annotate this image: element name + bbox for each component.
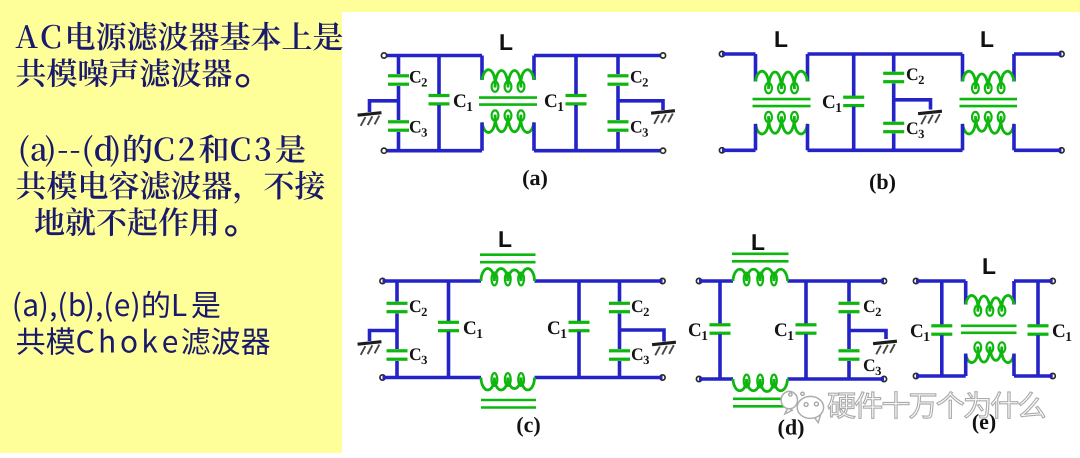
inductor winding bottom (c)	[481, 373, 535, 390]
wire d ground stem	[849, 331, 886, 340]
label C3 (c left)	[410, 348, 427, 364]
label C2 (b)	[907, 68, 924, 84]
wire c C3 right lower	[618, 361, 622, 378]
wire d branch C2C3 upper	[847, 281, 851, 302]
wire a C1-right lower	[574, 105, 578, 151]
label (c)	[517, 417, 539, 437]
ground a left	[357, 111, 382, 126]
wire a C3 right lower	[616, 132, 620, 151]
wire b bottom-right	[1014, 149, 1062, 153]
wire b xfmr2 jog TR	[1012, 54, 1016, 82]
text line6	[15, 291, 220, 322]
terminal b bottom-left	[719, 148, 724, 153]
core L (a)	[479, 98, 537, 105]
ground c left	[357, 340, 382, 355]
wire c top-left	[383, 279, 482, 283]
wire e C1-left upper	[940, 281, 944, 325]
inductor L winding top (e)	[966, 296, 1014, 316]
label C1 (a left)	[454, 94, 472, 111]
ground b	[918, 110, 943, 125]
ground d	[873, 340, 898, 355]
inductor winding bottom (d)	[733, 375, 788, 392]
wire c ground-left stem	[370, 331, 398, 342]
wire e xfmr jog TR	[1012, 281, 1016, 305]
wire a C3 left lower	[397, 132, 401, 151]
label C3 (a right)	[631, 121, 648, 137]
wire c top-right	[535, 279, 663, 283]
capacitor C3 (d)	[839, 349, 860, 361]
label C3 (a left)	[410, 121, 427, 137]
label C2 (a left)	[410, 71, 427, 87]
capacitor C1 (e left)	[931, 324, 952, 336]
text line3	[21, 134, 305, 167]
label (e)	[973, 414, 995, 434]
wire e C1-right upper	[1036, 281, 1040, 325]
label C1 (e left)	[911, 324, 929, 341]
wire b xfmr1 jog BL	[754, 124, 758, 150]
text line5 full stop	[226, 226, 235, 235]
wire e C1-left lower	[940, 335, 944, 376]
wire a xfmr top-right jog	[532, 56, 536, 81]
core L bottom (c)	[481, 400, 536, 408]
wire b C2-C3 mid	[892, 84, 896, 122]
capacitor C2 (d)	[839, 302, 860, 314]
wire d top-right	[788, 279, 885, 283]
wire c C2-C3 left mid	[395, 314, 399, 350]
label L (c)	[500, 231, 512, 247]
wire a C1-left lower	[437, 105, 441, 151]
yellow top band	[0, 0, 1080, 12]
capacitor C1 (d left)	[710, 323, 731, 335]
capacitor C1 (c left)	[438, 321, 459, 333]
wire a bottom-right	[534, 149, 663, 153]
wire b branch C2C3 upper	[892, 54, 896, 72]
capacitor C3 (a left)	[388, 120, 409, 132]
terminal a bottom-left	[381, 148, 386, 153]
wire a xfmr bottom-left jog	[480, 123, 484, 151]
wire b top-mid	[808, 52, 963, 56]
capacitor C1 (a left)	[429, 94, 450, 106]
terminal d bottom-right	[881, 376, 886, 381]
inductor L winding top (c)	[481, 269, 535, 286]
terminal e top-right	[1050, 278, 1055, 283]
core L top (d)	[732, 254, 789, 261]
terminal e bottom-left	[913, 373, 918, 378]
wire e xfmr jog BR	[1012, 354, 1016, 376]
wire b bottom-mid	[808, 149, 963, 153]
capacitor C1 (b)	[843, 96, 864, 108]
wire e xfmr jog TL	[964, 281, 968, 305]
wire b xfmr1 jog TR	[806, 54, 810, 82]
label (b)	[870, 174, 895, 194]
wire a branch C2C3-right	[616, 56, 620, 75]
capacitor C2 (a left)	[388, 74, 409, 86]
terminal d bottom-left	[696, 376, 701, 381]
label C3 (b)	[907, 122, 924, 138]
capacitor C3 (b)	[883, 122, 904, 134]
label C1 (b)	[823, 95, 841, 112]
terminal c top-right	[660, 278, 665, 283]
wire e C1-right lower	[1036, 335, 1040, 376]
inductor L2 winding top (b)	[963, 71, 1015, 93]
wire c C2-C3 right mid	[618, 314, 622, 350]
wire b ground stem	[894, 100, 931, 110]
text line5	[35, 207, 218, 236]
wire d bottom-left	[699, 377, 733, 381]
terminal d top-left	[696, 278, 701, 283]
terminal b bottom-right	[1059, 148, 1064, 153]
label L left (b)	[776, 31, 788, 47]
wire b C1 upper	[852, 54, 856, 96]
wire c bottom-right	[535, 376, 663, 380]
capacitor C2 (b)	[883, 72, 904, 84]
wire b xfmr2 jog BL	[961, 124, 965, 150]
label L (e)	[984, 258, 996, 274]
wire a xfmr top-left jog	[480, 56, 484, 81]
label C1 (a right)	[545, 94, 563, 111]
wire d C1-left lower	[718, 334, 722, 379]
terminal e top-left	[913, 278, 918, 283]
wire b xfmr2 jog TL	[961, 54, 965, 82]
wire c ground-right stem	[620, 330, 665, 342]
wire c branch C2C3-left upper	[395, 281, 399, 302]
terminal e bottom-right	[1050, 373, 1055, 378]
label (d)	[779, 419, 804, 439]
wire a top-right	[534, 54, 663, 58]
terminal b top-right	[1059, 51, 1064, 56]
label C2 (d)	[864, 300, 881, 316]
text line2 full stop	[237, 75, 248, 86]
label L (a)	[501, 34, 513, 50]
capacitor C1 (e right)	[1028, 324, 1049, 336]
inductor L1 winding bottom (b)	[756, 112, 808, 134]
terminal d top-right	[881, 278, 886, 283]
wire a C1-left upper	[437, 56, 441, 95]
label C3 (d)	[864, 359, 881, 375]
inductor L1 winding top (b)	[756, 71, 808, 93]
inductor L winding top (a)	[482, 70, 534, 92]
wire d C3 lower	[847, 361, 851, 379]
text line4	[17, 171, 325, 204]
terminal a top-right	[660, 53, 665, 58]
wire d C2-C3 mid	[847, 314, 851, 350]
wire b xfmr1 jog TL	[754, 54, 758, 82]
wire d top-left	[699, 279, 733, 283]
text line7	[17, 327, 270, 355]
wire c C3 left lower	[395, 361, 399, 378]
wire d bottom-right	[788, 377, 885, 381]
inductor L winding top (d)	[733, 269, 788, 286]
core L2 (b)	[960, 99, 1018, 106]
wire d C1-mid lower	[804, 334, 808, 379]
wire d C1-left upper	[718, 281, 722, 324]
wire c C1-right lower	[577, 332, 581, 378]
yellow left panel	[0, 0, 342, 453]
wire b xfmr1 jog BR	[806, 124, 810, 150]
label C3 (c right)	[632, 348, 649, 364]
wire a C1-right upper	[574, 56, 578, 95]
label C1 (c right)	[548, 321, 566, 338]
label C1 (e right)	[1053, 324, 1071, 341]
label C2 (a right)	[631, 71, 648, 87]
wire a ground-right stem	[618, 101, 663, 110]
terminal c top-left	[380, 278, 385, 283]
wire e xfmr jog BL	[964, 354, 968, 376]
wire c C1-left lower	[447, 332, 451, 378]
wire a branch C2C3-left	[397, 56, 401, 75]
capacitor C2 (c right)	[609, 302, 630, 314]
terminal a top-left	[381, 53, 386, 58]
wire b top-right	[1014, 52, 1062, 56]
watermark text	[828, 392, 1045, 419]
core L bottom (d)	[733, 399, 789, 407]
label C1 (c left)	[464, 321, 482, 338]
capacitor C3 (c right)	[609, 349, 630, 361]
capacitor C1 (c right)	[569, 321, 590, 333]
label (a)	[523, 170, 547, 190]
capacitor C1 (a right)	[566, 94, 587, 106]
label C1 (d mid)	[775, 323, 793, 340]
wire b C3 lower	[892, 134, 896, 151]
terminal c bottom-left	[380, 375, 385, 380]
wire e top-right	[1014, 279, 1053, 283]
inductor L winding bottom (a)	[482, 110, 534, 132]
capacitor C3 (a right)	[608, 120, 629, 132]
wire e bottom-right	[1014, 374, 1053, 378]
wire a xfmr bottom-right jog	[532, 123, 536, 151]
capacitor C1 (d mid)	[796, 323, 817, 335]
text line2	[17, 58, 232, 87]
label C2 (c left)	[410, 300, 427, 316]
core L1 (b)	[753, 99, 811, 106]
wire a bottom-left	[384, 149, 482, 153]
wire b bottom-left	[722, 149, 756, 153]
terminal c bottom-right	[660, 375, 665, 380]
wire c C1-left upper	[447, 281, 451, 321]
wire b xfmr2 jog BR	[1012, 124, 1016, 150]
wire c bottom-left	[383, 376, 482, 380]
wire b C1 lower	[852, 107, 856, 151]
ground a right	[651, 109, 676, 124]
capacitor C3 (c left)	[387, 349, 408, 361]
terminal a bottom-right	[660, 148, 665, 153]
wire a C2-C3 left mid	[397, 86, 401, 120]
wire a ground-left stem	[370, 101, 399, 112]
label L right (b)	[982, 31, 994, 47]
wire b top-left	[722, 52, 756, 56]
text line1	[16, 22, 343, 51]
inductor L2 winding bottom (b)	[963, 112, 1015, 134]
wire a top-left	[384, 54, 482, 58]
watermark logo bubbles	[781, 391, 824, 422]
capacitor C2 (a right)	[608, 74, 629, 86]
label L (d)	[753, 234, 765, 250]
core L top (c)	[480, 255, 536, 263]
label C1 (d left)	[689, 323, 707, 340]
capacitor C2 (c left)	[387, 302, 408, 314]
wire d C1-mid upper	[804, 281, 808, 324]
wire c C1-right upper	[577, 281, 581, 321]
terminal b top-left	[719, 51, 724, 56]
wire e bottom	[916, 374, 966, 378]
wire a C2-C3 right mid	[616, 86, 620, 120]
label C2 (c right)	[632, 300, 649, 316]
ground c right	[652, 341, 677, 356]
wire e top	[916, 279, 966, 283]
inductor L winding bottom (e)	[966, 342, 1014, 362]
wire c branch C2C3-right upper	[618, 281, 622, 302]
core L (e)	[961, 326, 1017, 333]
